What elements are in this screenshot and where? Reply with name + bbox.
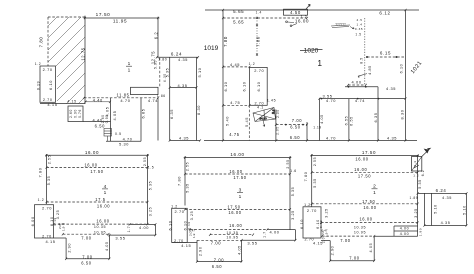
svg-text:1.7: 1.7 <box>127 226 131 233</box>
svg-text:1.2: 1.2 <box>304 203 311 207</box>
svg-text:11.95: 11.95 <box>113 19 127 24</box>
plan 4 ext bottom wall <box>109 234 155 236</box>
plan A top wall <box>84 17 160 19</box>
plan 1 wall v 307 <box>306 122 308 141</box>
plan 3 top wall <box>184 157 292 159</box>
svg-text:16.00: 16.00 <box>229 169 242 174</box>
svg-text:2.55: 2.55 <box>143 157 147 166</box>
svg-text:4.35: 4.35 <box>386 86 396 91</box>
plan 3 dashed wall lower <box>190 228 267 230</box>
svg-text:6.24: 6.24 <box>171 52 182 57</box>
svg-text:4.70: 4.70 <box>326 98 336 103</box>
svg-text:5.45: 5.45 <box>244 117 249 127</box>
plan 4 dashed wall lowest <box>63 233 109 235</box>
svg-text:??????: ?????? <box>335 22 346 26</box>
svg-text:4.35: 4.35 <box>441 221 451 225</box>
plan A porch bottom wall <box>106 140 141 142</box>
svg-text:7.00: 7.00 <box>82 254 93 259</box>
svg-text:8.30: 8.30 <box>196 105 201 115</box>
svg-text:4.70: 4.70 <box>120 98 130 103</box>
hatch area plan A <box>0 0 194 110</box>
svg-text:1.9: 1.9 <box>62 226 66 231</box>
svg-text:2.70: 2.70 <box>174 209 184 214</box>
plan 4 ext right wall <box>154 224 156 235</box>
svg-text:6.10: 6.10 <box>299 219 304 229</box>
small room rect plan 4 <box>35 205 54 238</box>
plan 4 porch right wall <box>108 235 110 259</box>
svg-text:0.35: 0.35 <box>355 27 363 31</box>
svg-text:4.35: 4.35 <box>442 196 452 200</box>
plan 2 ext inner wall <box>431 193 433 225</box>
svg-text:7.80: 7.80 <box>256 36 261 47</box>
plan A ext right wall lower <box>196 88 198 141</box>
ticks plan 1 <box>222 9 407 142</box>
plan 1 right wall <box>405 10 407 141</box>
svg-text:10.35: 10.35 <box>354 225 366 229</box>
svg-text:3.55: 3.55 <box>247 240 257 245</box>
plan 2 dashed wall lower <box>321 222 418 224</box>
utility rows 4.00 plan 2 <box>394 226 418 236</box>
svg-text:5.40: 5.40 <box>224 116 229 126</box>
svg-text:1.7: 1.7 <box>263 231 267 238</box>
tick cluster plan 2 <box>321 229 329 238</box>
plan 4 porch bottom wall <box>66 258 109 260</box>
plan 3 dashed wall lowest <box>210 234 253 236</box>
svg-text:5.35: 5.35 <box>149 181 153 191</box>
svg-text:17.5: 17.5 <box>95 197 106 202</box>
svg-text:3.55: 3.55 <box>115 236 125 241</box>
plan A ext right wall upper <box>196 57 198 87</box>
plan 2 dashed wall lowest <box>322 235 374 237</box>
svg-text:7.00: 7.00 <box>214 258 225 263</box>
plan 1 top dashed wall <box>223 17 307 19</box>
dim line 4.40 <box>86 101 111 103</box>
svg-text:8.30: 8.30 <box>400 109 405 119</box>
plan 1 wall v 319 <box>318 99 320 141</box>
svg-text:6.10: 6.10 <box>168 220 173 230</box>
svg-text:10.35: 10.35 <box>226 231 238 235</box>
label box 4.50 <box>284 9 308 15</box>
svg-text:4.15: 4.15 <box>181 243 191 248</box>
plan A ext left wall lower <box>169 88 171 141</box>
ticks plan 2 <box>311 154 468 262</box>
svg-text:2.05: 2.05 <box>276 109 280 118</box>
svg-text:17.50: 17.50 <box>233 175 246 180</box>
leader arrow 4.85 <box>358 74 367 78</box>
svg-text:16.00: 16.00 <box>355 157 368 162</box>
svg-text:5.65: 5.65 <box>233 20 244 25</box>
plan 4 right wall <box>147 154 149 224</box>
svg-text:6.85: 6.85 <box>141 109 145 119</box>
plan 4 porch left wall <box>65 238 67 259</box>
svg-text:4.35: 4.35 <box>178 58 188 62</box>
svg-text:7.80: 7.80 <box>39 37 44 48</box>
svg-text:4.75: 4.75 <box>229 132 240 137</box>
plan 1 dashed partition v <box>248 105 250 140</box>
svg-text:6.50: 6.50 <box>81 260 92 265</box>
svg-text:1.9: 1.9 <box>192 233 196 238</box>
svg-text:1.89: 1.89 <box>409 196 418 200</box>
svg-text:5.35: 5.35 <box>418 179 422 189</box>
small room rect plan 2 <box>303 207 321 238</box>
corner box plan 2 <box>412 157 422 172</box>
svg-text:4.70: 4.70 <box>326 136 336 141</box>
svg-text:2.70: 2.70 <box>43 98 53 102</box>
plan 3 porch right wall <box>241 240 243 261</box>
svg-text:4.00: 4.00 <box>400 232 410 236</box>
plan 3 porch left wall <box>196 240 198 261</box>
plan 2 right wall <box>417 155 419 236</box>
plan 3 porch bottom wall <box>197 261 242 263</box>
svg-text:5.95: 5.95 <box>154 60 158 69</box>
svg-text:4.35: 4.35 <box>387 136 397 141</box>
svg-text:4.15: 4.15 <box>67 100 76 104</box>
plan 2 ext right wall <box>466 193 468 225</box>
svg-text:5.30: 5.30 <box>119 142 129 146</box>
plan 1 top wall <box>205 9 419 11</box>
svg-text:34.30: 34.30 <box>259 117 267 121</box>
leader arrow 4.50 <box>306 4 310 9</box>
svg-text:16.00: 16.00 <box>354 167 367 172</box>
svg-text:7.00: 7.00 <box>340 238 351 243</box>
plan 1 wall v 378 <box>377 87 379 141</box>
svg-text:1.2: 1.2 <box>171 204 178 208</box>
svg-text:17.50: 17.50 <box>90 169 103 174</box>
plan A ext mid wall <box>170 87 197 89</box>
plan A ext top wall <box>157 56 198 58</box>
svg-text:1.80: 1.80 <box>418 228 422 236</box>
svg-text:6.10: 6.10 <box>241 81 246 91</box>
svg-text:1.5: 1.5 <box>355 32 361 36</box>
svg-text:2.70: 2.70 <box>307 208 317 213</box>
svg-text:17.50: 17.50 <box>362 150 376 155</box>
plan 2 ext bottom wall 2 <box>374 235 417 237</box>
svg-text:1.2: 1.2 <box>413 174 419 178</box>
svg-text:6.35: 6.35 <box>163 73 167 82</box>
svg-text:1: 1 <box>128 67 131 73</box>
small room rect plan 3 <box>172 208 188 242</box>
plan 2 ext top wall <box>418 192 467 194</box>
svg-text:4.70: 4.70 <box>123 137 133 141</box>
svg-text:1.19: 1.19 <box>313 125 322 129</box>
svg-text:6.10: 6.10 <box>223 81 228 91</box>
svg-text:3.25: 3.25 <box>190 211 194 221</box>
svg-text:1.5: 1.5 <box>148 166 155 170</box>
dim dots 6.15 <box>366 56 398 58</box>
plan A bottom dashed wall <box>84 97 158 99</box>
svg-text:5.10: 5.10 <box>197 67 202 77</box>
svg-text:10.35: 10.35 <box>94 225 106 229</box>
svg-text:6.50: 6.50 <box>290 125 301 130</box>
svg-text:2.05: 2.05 <box>276 126 280 135</box>
svg-text:1: 1 <box>373 190 376 196</box>
plan A ext bottom wall <box>170 140 200 142</box>
plan 4 ext top wall <box>130 223 156 225</box>
svg-text:5.35: 5.35 <box>291 187 295 197</box>
small annex rect plan A <box>68 106 83 122</box>
hatch left dashed edge <box>47 17 49 66</box>
svg-text:6.15: 6.15 <box>380 50 391 55</box>
plan 3 ext right wall <box>294 230 296 241</box>
plan A annex wall v1 <box>110 98 112 142</box>
svg-text:5.35: 5.35 <box>186 183 190 193</box>
small closet rect plan A <box>131 87 159 94</box>
plan 4 dashed wall lower <box>54 223 148 225</box>
svg-text:4.00: 4.00 <box>400 227 410 231</box>
plan 2 porch bottom wall <box>330 260 374 262</box>
svg-text:8.5: 8.5 <box>360 57 364 64</box>
ticks plan 3 <box>184 156 296 262</box>
plan 3 body bottom wall <box>172 241 197 243</box>
svg-text:2.55: 2.55 <box>313 157 317 166</box>
svg-text:4.50: 4.50 <box>290 10 301 15</box>
plan 1 dashed wall 4.45 <box>223 66 250 68</box>
stair detail plan A <box>104 129 112 142</box>
plan 2 body bottom wall <box>321 240 330 242</box>
svg-text:16.00: 16.00 <box>85 150 99 155</box>
plan 1 wall v 347 <box>348 99 350 141</box>
small room rect plan 1 <box>250 67 268 105</box>
svg-text:10.95: 10.95 <box>354 231 366 235</box>
svg-text:7.80: 7.80 <box>303 171 308 181</box>
svg-text:16.00: 16.00 <box>363 205 376 210</box>
svg-text:1.2: 1.2 <box>249 62 256 66</box>
svg-text:4.35: 4.35 <box>179 135 189 140</box>
plan 1 dashed partition v365 <box>364 18 366 85</box>
tick cluster plan 3 <box>189 229 197 239</box>
svg-text:4.05: 4.05 <box>369 243 373 253</box>
svg-text:2.70: 2.70 <box>42 235 52 239</box>
svg-text:1020: 1020 <box>304 47 319 54</box>
plan A left wall <box>84 16 86 104</box>
svg-text:4.75: 4.75 <box>230 100 240 105</box>
svg-text:3.25: 3.25 <box>414 208 418 218</box>
dim dots 86.8 <box>348 86 367 88</box>
corner box diagonals <box>412 157 422 172</box>
plan 1 left wall <box>222 10 224 141</box>
svg-text:5.35: 5.35 <box>47 176 51 186</box>
plan A ext dashed wall <box>159 58 161 88</box>
svg-text:16.00: 16.00 <box>228 210 241 215</box>
plan 3 right wall <box>289 156 291 229</box>
svg-text:1: 1 <box>317 58 322 68</box>
plan 2 porch left wall <box>329 241 331 261</box>
plan A annex bottom wall <box>83 121 111 123</box>
svg-text:7.00: 7.00 <box>349 255 360 260</box>
svg-text:5.10: 5.10 <box>462 205 466 215</box>
svg-text:4.74: 4.74 <box>355 98 365 103</box>
svg-text:2.3: 2.3 <box>413 160 417 166</box>
plan 4 dashed wall mid <box>47 201 148 203</box>
svg-text:4.40: 4.40 <box>93 97 103 102</box>
svg-text:6.24: 6.24 <box>436 188 447 193</box>
plan 2 porch right wall <box>373 236 375 261</box>
plan 3 ext top wall <box>267 229 295 231</box>
svg-text:6.2: 6.2 <box>421 170 425 177</box>
svg-text:7.00: 7.00 <box>292 118 303 123</box>
svg-text:2.70: 2.70 <box>254 68 264 73</box>
partition tick marks <box>256 17 258 56</box>
svg-text:1019: 1019 <box>204 45 219 52</box>
svg-text:17.50: 17.50 <box>362 199 375 204</box>
plan 4 left wall <box>46 154 48 204</box>
svg-text:10.95: 10.95 <box>226 236 238 240</box>
svg-text:4.00: 4.00 <box>139 225 149 230</box>
dotted partition plan 1 <box>256 18 258 56</box>
svg-text:16.00: 16.00 <box>230 152 244 157</box>
hatch bottom edge <box>40 103 85 105</box>
tick cluster plan 4 <box>58 222 66 231</box>
plan 1 dashed wall 6.15 <box>367 56 406 58</box>
plan 4 top wall <box>45 154 149 156</box>
svg-text:2.90: 2.90 <box>199 246 203 256</box>
svg-text:17.50: 17.50 <box>358 173 371 178</box>
svg-text:4.05: 4.05 <box>238 245 242 255</box>
svg-text:5.35: 5.35 <box>313 178 317 188</box>
ticks plan A <box>83 17 201 142</box>
plan A right wall upper <box>157 17 159 58</box>
plan A right wall lower <box>157 98 159 141</box>
svg-text:4.74: 4.74 <box>148 98 158 103</box>
svg-text:2.90: 2.90 <box>330 246 334 256</box>
svg-text:4.00: 4.00 <box>269 230 279 235</box>
plan 2 ext left wall <box>423 193 425 225</box>
svg-text:1.2: 1.2 <box>38 198 45 202</box>
svg-text:1.6: 1.6 <box>290 169 297 173</box>
svg-text:10.95: 10.95 <box>94 230 106 234</box>
svg-text:0.19: 0.19 <box>36 81 40 90</box>
svg-text:1: 1 <box>104 190 107 196</box>
plan 1 bottom wall <box>204 140 417 142</box>
svg-text:4.5: 4.5 <box>357 18 363 22</box>
plan 1 dashed wall 7.00 <box>276 124 307 126</box>
svg-text:5.10: 5.10 <box>433 204 437 214</box>
svg-text:1: 1 <box>239 194 242 200</box>
svg-text:1.4: 1.4 <box>357 22 363 26</box>
svg-text:4.45: 4.45 <box>230 62 240 67</box>
plan 2 dashed wall mid <box>312 203 418 205</box>
svg-text:16.00: 16.00 <box>97 204 110 209</box>
svg-text:16.00: 16.00 <box>84 162 97 167</box>
svg-text:0.5: 0.5 <box>115 132 122 136</box>
small room rect plan A <box>40 66 56 102</box>
svg-text:6.10: 6.10 <box>256 81 261 91</box>
svg-text:0.90: 0.90 <box>105 114 109 123</box>
plan 4 dashed wall upper <box>47 167 148 169</box>
plan 3 left wall <box>184 156 186 205</box>
svg-text:4.15: 4.15 <box>45 239 55 244</box>
svg-text:16.00: 16.00 <box>229 223 242 228</box>
svg-text:7.00: 7.00 <box>81 235 92 240</box>
svg-text:0.76: 0.76 <box>78 109 82 118</box>
svg-text:3.25: 3.25 <box>291 210 295 220</box>
plan 1 dashed wall 4.00 <box>348 84 366 86</box>
svg-text:3.25: 3.25 <box>149 207 153 217</box>
svg-text:4.15: 4.15 <box>47 102 57 107</box>
svg-text:6.00: 6.00 <box>30 216 35 226</box>
svg-text:4.05: 4.05 <box>320 114 324 124</box>
svg-text:5.65: 5.65 <box>233 9 244 14</box>
svg-text:0.19: 0.19 <box>319 220 323 228</box>
dim dots 98.6 <box>321 98 380 100</box>
svg-text:6.55: 6.55 <box>350 116 354 126</box>
plan 1 wall h 98.6 <box>319 98 405 100</box>
plan 3 dashed wall mid <box>185 208 290 210</box>
svg-text:2.70: 2.70 <box>43 67 53 72</box>
svg-text:7.00: 7.00 <box>211 240 222 245</box>
svg-text:6.12: 6.12 <box>379 11 390 16</box>
svg-text:1.45: 1.45 <box>267 99 276 103</box>
svg-text:2.55: 2.55 <box>47 155 51 164</box>
plan 4 body bottom wall <box>54 237 67 239</box>
svg-text:6.50: 6.50 <box>212 264 223 269</box>
plan 2 left wall <box>311 154 313 207</box>
plan A annex wall v2 <box>140 98 142 142</box>
plan 3 porch top dashed <box>197 239 242 241</box>
svg-text:3.25: 3.25 <box>324 208 328 218</box>
svg-text:4.05: 4.05 <box>113 111 117 121</box>
svg-text:17.50: 17.50 <box>96 12 111 17</box>
svg-text:4.05: 4.05 <box>105 241 109 251</box>
svg-text:2.55: 2.55 <box>286 159 290 168</box>
ticks plan 4 <box>46 154 157 260</box>
svg-text:12.75: 12.75 <box>80 47 85 60</box>
plan 2 ext bottom wall <box>424 225 466 227</box>
svg-text:7.80: 7.80 <box>223 36 228 47</box>
plan 1 dashed wall 4.75 <box>223 104 250 106</box>
svg-text:4.1: 4.1 <box>257 106 264 110</box>
svg-text:0.90: 0.90 <box>74 109 78 118</box>
svg-text:16.00: 16.00 <box>96 219 109 224</box>
svg-text:2.60: 2.60 <box>69 109 73 118</box>
plan A ext inner wall <box>169 57 171 87</box>
plan 1 wall v 274 <box>275 110 277 141</box>
svg-text:6.35: 6.35 <box>373 112 378 122</box>
svg-text:6.2: 6.2 <box>153 32 158 40</box>
svg-text:17.50: 17.50 <box>227 204 240 209</box>
stair scribble plan 1 <box>253 108 276 127</box>
svg-text:6.10: 6.10 <box>400 64 404 74</box>
plan 3 ext bottom wall <box>242 239 296 241</box>
dim dots 7.00 <box>285 124 304 126</box>
svg-text:2.70: 2.70 <box>42 206 52 211</box>
svg-text:6.10: 6.10 <box>48 80 53 90</box>
svg-text:7.80: 7.80 <box>37 167 42 177</box>
plan 3 dashed wall upper <box>185 173 290 175</box>
svg-text:4.00: 4.00 <box>352 80 362 85</box>
svg-text:6.55: 6.55 <box>345 116 349 126</box>
svg-text:4.35: 4.35 <box>177 83 187 88</box>
svg-text:1.2: 1.2 <box>35 62 42 66</box>
svg-text:1.4: 1.4 <box>256 11 262 15</box>
hatch top dashed edge <box>48 16 85 18</box>
svg-text:4.85: 4.85 <box>368 65 372 75</box>
svg-text:1.9: 1.9 <box>325 232 329 237</box>
leader marks 16.00 <box>286 21 297 27</box>
plan 1 wall h 86.8 <box>345 86 378 88</box>
svg-text:6.35: 6.35 <box>169 109 174 119</box>
svg-text:2.90: 2.90 <box>68 243 72 253</box>
plan 2 top wall <box>310 154 419 156</box>
flag marker plan 2 <box>422 148 431 156</box>
scratched label <box>331 25 354 29</box>
svg-text:6.50: 6.50 <box>290 135 301 140</box>
svg-text:2.55: 2.55 <box>186 162 190 171</box>
svg-text:16.00: 16.00 <box>295 19 309 24</box>
svg-text:16.00: 16.00 <box>359 216 372 221</box>
svg-text:7.80: 7.80 <box>176 176 181 186</box>
plan 2 dashed wall upper <box>312 171 418 173</box>
